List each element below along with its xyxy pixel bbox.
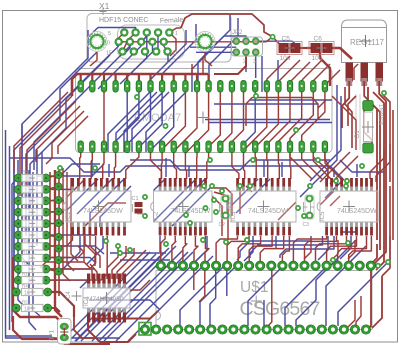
wire (bottom copper) [108,164,110,177]
wire (bottom copper) [98,46,141,89]
wire (top copper) [46,111,84,164]
wire (top copper) [40,262,92,279]
svg-text:1k: 1k [24,291,30,297]
svg-text:R11: R11 [22,261,30,266]
wire (bottom copper) [340,160,384,172]
wire (top copper) [169,28,181,33]
wire (top copper) [313,152,331,179]
wire (top copper) [169,33,176,57]
resistor R5 [12,300,52,313]
wire (top copper) [46,211,59,214]
wire (top copper) [117,33,124,47]
svg-text:R9: R9 [22,238,28,243]
wire (top copper) [46,199,59,202]
wire (bottom copper) [275,236,277,248]
wire (top copper) [372,276,382,328]
wire (top copper) [302,152,322,179]
wire (top copper) [174,92,197,151]
wire (bottom copper) [231,179,258,206]
wire (bottom copper) [60,236,80,272]
resistor R10 [14,250,50,263]
wire (bottom copper) [86,236,103,265]
wire (bottom copper) [236,179,270,213]
wire (top copper) [252,97,312,99]
wire (bottom copper) [154,179,197,222]
wire (top copper) [368,87,380,250]
wire (bottom copper) [128,256,213,341]
wire (top copper) [207,152,209,179]
wire (bottom copper) [10,158,343,179]
wire (bottom copper) [205,119,330,121]
wire (top copper) [74,310,96,338]
svg-text:Female: Female [160,17,184,25]
wire (top copper) [266,152,269,179]
wire (top copper) [246,98,252,127]
wire (top copper) [232,152,239,179]
wire (top copper) [267,56,290,80]
wire (bottom copper) [11,184,13,322]
wire (top copper) [371,81,386,267]
wire (top copper) [376,144,390,182]
wire (top copper) [126,152,139,179]
wire (bottom copper) [33,172,40,316]
wire (top copper) [84,203,126,227]
svg-text:R1: R1 [22,170,28,175]
wire (bottom copper) [263,300,265,326]
wire (top copper) [103,152,104,179]
svg-text:74LS245DW: 74LS245DW [83,208,123,215]
wire (top copper) [316,236,347,261]
wire (bottom copper) [224,36,246,41]
wire (bottom copper) [34,46,130,170]
wire (top copper) [392,110,394,240]
wire (top copper) [293,236,326,261]
wire (bottom copper) [139,92,162,147]
wire (bottom copper) [250,99,332,101]
wire (top copper) [90,236,100,268]
wire (top copper) [13,257,64,325]
wire (bottom copper) [110,252,166,254]
wire (bottom copper) [162,179,205,222]
wire (top copper) [88,312,136,342]
wire (top copper) [36,106,80,162]
IC5 MM74HC4050 [83,274,130,323]
wire (top copper) [46,235,59,237]
svg-text:JP2: JP2 [232,30,243,36]
wire (top copper) [114,152,115,179]
via column [55,171,62,275]
wire (top copper) [325,152,328,179]
wire (top copper) [119,37,273,42]
wire (top copper) [332,96,356,150]
wire (top copper) [199,266,205,302]
wire (top copper) [227,236,249,261]
wire (top copper) [103,92,105,141]
wire (bottom copper) [46,268,95,270]
wire (bottom copper) [30,55,110,208]
U$1 bottom pad row [139,323,371,336]
wire (top copper) [161,74,163,82]
svg-text:X1: X1 [99,1,110,11]
wire (top copper) [138,74,140,82]
wire (bottom copper) [208,122,332,124]
wire (top copper) [130,280,150,290]
wire (top copper) [324,70,340,86]
resistor R4 [12,284,52,297]
wire (top copper) [356,296,361,328]
wire (top copper) [172,236,176,261]
wire (bottom copper) [60,164,104,176]
CMOD A7 bottom pads [78,141,328,153]
wire (top copper) [91,152,92,179]
wire (bottom copper) [46,246,104,254]
wire (top copper) [151,152,162,179]
wire (top copper) [71,178,78,261]
resistor R6 [14,204,50,217]
wire (top copper) [196,74,198,82]
svg-text:5: 5 [108,31,111,37]
connector JP1 [49,319,72,345]
wire (bottom copper) [196,51,236,53]
svg-text:M74HC4050: M74HC4050 [87,296,124,303]
wire (top copper) [345,87,352,148]
wire (top copper) [20,96,72,196]
wire (top copper) [370,150,384,179]
wire (top copper) [364,110,372,152]
wire (top copper) [348,300,355,327]
svg-text:IC1: IC1 [66,211,72,221]
wire (top copper) [354,64,358,80]
wire (bottom copper) [46,223,64,225]
wire (top copper) [46,269,59,272]
wire (bottom copper) [333,168,335,177]
wire (top copper) [304,240,311,259]
wire (bottom copper) [310,96,341,181]
wire (bottom copper) [61,252,150,341]
wire (bottom copper) [108,92,150,152]
wire (bottom copper) [214,103,318,105]
wire (bottom copper) [46,258,96,264]
wire (bottom copper) [6,335,52,337]
connector X1 outline [87,14,231,63]
wire (top copper) [382,186,390,276]
wire (bottom copper) [14,46,119,274]
svg-text:JP1: JP1 [49,329,56,341]
svg-text:R4: R4 [22,284,28,289]
wire (top copper) [302,92,325,141]
wire (top copper) [161,236,165,261]
svg-text:C4: C4 [66,291,72,299]
wire (bottom copper) [116,92,157,152]
wire (top copper) [255,92,278,147]
svg-text:R7: R7 [22,215,28,220]
svg-text:C3: C3 [303,222,310,228]
wire (top copper) [63,168,70,281]
wire (top copper) [330,156,358,184]
wire (top copper) [366,270,371,330]
svg-text:C2: C2 [219,222,226,228]
IC4 74LS245DW [317,178,378,236]
wire (top copper) [244,152,245,179]
wire (top copper) [107,244,118,279]
CMOD A7 outline [76,69,333,153]
wire (bottom copper) [340,226,356,232]
wire (top copper) [338,236,367,261]
svg-text:3: 3 [253,59,256,65]
wire (bottom copper) [132,92,169,152]
wire (top copper) [202,58,204,74]
wire (top copper) [302,60,322,80]
svg-text:C6: C6 [314,36,323,43]
wire (top copper) [327,236,357,261]
wire (top copper) [277,152,280,179]
wire (top copper) [330,240,338,261]
capacitor C4 label [66,291,82,301]
wire (bottom copper) [172,186,212,226]
wire (bottom copper) [126,42,130,52]
wire (top copper) [117,248,134,279]
svg-text:1N4004: 1N4004 [377,104,383,126]
wire (top copper) [78,246,84,262]
wire (bottom copper) [237,236,311,260]
wire (top copper) [91,74,93,82]
wire (bottom copper) [280,236,334,258]
wire (top copper) [313,152,328,179]
wire (bottom copper) [116,92,139,141]
wire (top copper) [191,64,193,74]
wire (bottom copper) [318,236,328,260]
wire (bottom copper) [36,150,38,246]
wire (top copper) [67,172,74,271]
wire (top copper) [373,92,384,270]
svg-text:1: 1 [175,31,178,37]
connector X1 dsub shell [118,25,185,59]
wire (top copper) [101,274,103,279]
wire (top copper) [210,188,232,216]
wire (bottom copper) [277,60,279,92]
wire (top copper) [318,100,326,108]
svg-text:U$1: U$1 [240,279,268,296]
U$1 top pad row [156,261,375,270]
wire (bottom copper) [81,246,176,341]
wire (bottom copper) [325,179,344,198]
wire (bottom copper) [200,263,239,326]
wire (bottom copper) [340,236,351,259]
wire (bottom copper) [263,160,265,177]
wire (bottom copper) [120,46,153,84]
wire (top copper) [90,52,97,66]
wire (top copper) [301,47,311,49]
wire (top copper) [249,236,272,261]
wire (top copper) [279,60,300,81]
wire (top copper) [290,152,312,179]
wire (top copper) [330,196,340,206]
wire (top copper) [58,166,60,296]
U$1 origin cross [251,296,262,307]
wire (bottom copper) [244,92,256,144]
wire (top copper) [214,56,246,74]
wire (top copper) [114,74,116,82]
wire (bottom copper) [127,92,150,144]
wire (top copper) [364,81,377,240]
diode D1 1N4004 [355,101,383,154]
wire (bottom copper) [130,36,147,74]
wire (top copper) [183,236,187,261]
X1 mounting holes [87,32,215,52]
wire (top copper) [209,92,221,147]
wire (top copper) [289,152,292,179]
wire (top copper) [149,74,151,82]
wire (bottom copper) [150,30,186,92]
wire (top copper) [320,191,334,205]
CMOD A7 top pads [78,81,328,93]
wire (bottom copper) [130,160,330,170]
wire (top copper) [122,250,146,279]
wire (top copper) [173,74,175,82]
wire (top copper) [160,152,163,179]
wire (top copper) [46,187,59,190]
wire (top copper) [14,92,68,172]
wire (top copper) [109,307,111,314]
wire (top copper) [55,170,62,317]
wire (top copper) [244,92,267,150]
wire (top copper) [46,236,84,258]
wire (top copper) [266,266,272,328]
wire (top copper) [325,152,341,179]
wire (bottom copper) [162,24,196,92]
wire (top copper) [49,172,51,260]
wire (top copper) [48,292,74,317]
wire (bottom copper) [91,160,93,177]
U$1 outline [156,271,372,330]
wire (top copper) [174,152,177,179]
svg-text:R12: R12 [22,272,31,277]
svg-text:R5: R5 [22,300,28,305]
wire (bottom copper) [28,337,120,339]
wire (bottom copper) [198,14,230,92]
svg-text:IC2: IC2 [154,211,160,221]
wire (top copper) [312,98,318,121]
resistor R11 [14,261,50,274]
wire (top copper) [278,92,301,141]
wire (top copper) [194,236,198,261]
resistor R9 [14,238,50,251]
wire (top copper) [64,338,110,345]
wire (bottom copper) [159,236,161,252]
wire (top copper) [260,236,284,261]
wire (top copper) [349,236,372,261]
wire (top copper) [205,236,209,261]
svg-text:1k: 1k [24,307,30,313]
svg-text:10: 10 [104,41,110,47]
wire (bottom copper) [46,200,64,202]
regulator REG1117 body [342,20,387,63]
svg-text:D1: D1 [355,130,361,138]
wire (top copper) [278,202,296,220]
wire (top copper) [305,236,337,261]
wire (bottom copper) [126,92,128,141]
wire (top copper) [290,62,310,82]
svg-text:15: 15 [106,51,112,57]
wire (top copper) [348,96,356,126]
wire (bottom copper) [18,160,24,306]
wire (top copper) [220,92,232,145]
wire (top copper) [246,186,252,192]
wire (top copper) [216,236,237,261]
svg-text:11: 11 [172,51,178,57]
connector JP2 [232,30,263,65]
IC1 74LS245DW [63,178,131,236]
wire (top copper) [370,244,377,265]
svg-text:74LS245DW: 74LS245DW [337,208,377,215]
wire (bottom copper) [250,236,323,258]
wire (top copper) [320,53,330,86]
wire (top copper) [80,74,82,82]
wire (top copper) [273,37,283,48]
svg-text:C1: C1 [132,196,139,202]
capacitor C1 [132,196,144,214]
wire (top copper) [185,152,186,179]
wire (top copper) [66,180,84,198]
wire (bottom copper) [281,162,283,177]
svg-text:R2: R2 [22,181,28,186]
wire (top copper) [193,266,195,290]
wire (top copper) [27,101,76,186]
wire (top copper) [320,152,350,182]
wire (bottom copper) [90,179,124,227]
capacitor C5 [277,36,302,63]
wire (bottom copper) [69,254,156,341]
svg-text:10u: 10u [312,55,323,62]
wire (bottom copper) [338,236,390,326]
wire (bottom copper) [226,266,228,296]
wire (bottom copper) [165,158,167,177]
svg-text:HDF15 CONEC: HDF15 CONEC [99,17,148,24]
REG1117 origin cross [360,35,372,47]
svg-text:10u: 10u [280,55,291,62]
wire (top copper) [282,236,289,261]
capacitor C6 [309,36,334,63]
wire (top copper) [214,192,228,240]
capacitor C3 [303,195,315,228]
wire (top copper) [184,74,186,82]
wire (top copper) [48,308,60,312]
wire (top copper) [208,74,210,82]
wire (bottom copper) [326,246,366,326]
X1 pins [115,29,173,56]
wire (bottom copper) [9,146,11,330]
wire (bottom copper) [104,252,193,341]
wire (bottom copper) [29,170,36,330]
wire (bottom copper) [154,179,166,191]
wire (bottom copper) [76,248,169,341]
wire (top copper) [90,264,97,279]
resistor R2 [14,181,50,194]
wire (top copper) [80,152,81,179]
wire (bottom copper) [255,52,257,78]
wire (bottom copper) [26,52,97,236]
svg-text:R3: R3 [22,192,28,197]
wire (bottom copper) [210,266,216,326]
wire (bottom copper) [157,36,159,50]
svg-text:IC5: IC5 [320,211,326,221]
CMOD A7 origin cross [197,112,209,124]
wire (top copper) [255,152,256,179]
IC3 74LS245DW [228,178,296,236]
wire (bottom copper) [261,56,263,92]
wire (top copper) [46,236,96,269]
wire (bottom copper) [285,266,327,326]
